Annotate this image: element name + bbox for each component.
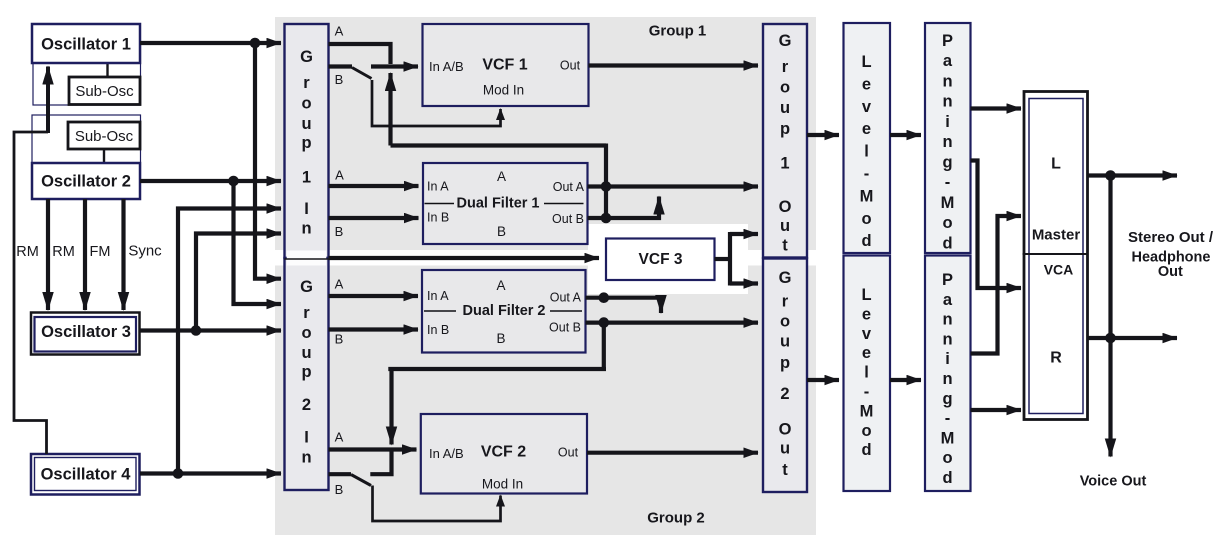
- svg-text:n: n: [942, 330, 952, 348]
- svg-text:In A: In A: [427, 180, 449, 194]
- wire VCF1 out to Group 1 Out: [589, 63, 759, 67]
- svg-text:o: o: [861, 422, 871, 440]
- svg-text:FM: FM: [90, 244, 111, 260]
- svg-text:n: n: [942, 73, 952, 91]
- wire In B to Dual Filter 1: [329, 216, 419, 220]
- svg-text:Dual Filter 1: Dual Filter 1: [457, 196, 540, 212]
- svg-text:L: L: [861, 286, 871, 304]
- block Group 2 In: [285, 258, 329, 490]
- svg-text:VCA: VCA: [1044, 262, 1074, 278]
- wire A from Group 1 In down to VCF1 input: [329, 44, 391, 64]
- svg-text:Oscillator 2: Oscillator 2: [41, 173, 131, 191]
- wire serial horizontal group 2: [388, 367, 606, 371]
- svg-text:Dual Filter 2: Dual Filter 2: [463, 303, 546, 319]
- wire VCF3 out split: [715, 257, 731, 261]
- wire Group 2 Out to Level-Mod 2: [807, 378, 839, 382]
- svg-text:r: r: [782, 293, 789, 311]
- svg-text:RM: RM: [52, 244, 75, 260]
- svg-text:VCF 1: VCF 1: [482, 57, 527, 74]
- wire osc1 riser to Group 2 In: [255, 43, 281, 279]
- group rect around Oscillator 1 + Sub-Osc: [33, 44, 141, 105]
- svg-text:n: n: [301, 449, 311, 467]
- group rect around Sub-Osc + Oscillator 2: [32, 115, 141, 178]
- svg-text:n: n: [942, 93, 952, 111]
- wire arrow into Oscillator 1 bottom: [46, 67, 50, 134]
- svg-text:Out A: Out A: [550, 291, 582, 305]
- svg-text:d: d: [861, 441, 871, 459]
- wire Panning-Mod 1 to Master L: [971, 106, 1022, 110]
- svg-text:e: e: [862, 75, 871, 93]
- wire FM osc2 to osc3: [83, 199, 87, 310]
- svg-text:Sync: Sync: [128, 243, 162, 260]
- svg-text:r: r: [303, 74, 310, 92]
- wire In A to Dual Filter 1: [329, 184, 419, 188]
- grey background Group areas: [275, 17, 816, 535]
- wire Panning-Mod 2 to VCA R: [971, 408, 1022, 412]
- svg-text:In A: In A: [427, 289, 449, 303]
- wire Oscillator 3 out: [140, 328, 281, 332]
- node L out: [1105, 170, 1116, 181]
- node on osc4 out: [173, 468, 184, 479]
- svg-text:2: 2: [302, 396, 311, 414]
- svg-text:P: P: [942, 271, 953, 289]
- svg-text:e: e: [862, 344, 871, 362]
- wire In A to Dual Filter 2: [329, 294, 419, 298]
- wire B stub 2: [329, 472, 352, 476]
- svg-text:n: n: [301, 220, 311, 238]
- svg-text:g: g: [942, 390, 952, 408]
- block VCF 2: [421, 414, 587, 494]
- svg-text:M: M: [941, 429, 955, 447]
- svg-text:r: r: [303, 304, 310, 322]
- svg-text:p: p: [301, 363, 311, 381]
- svg-text:l: l: [864, 143, 869, 161]
- svg-text:l: l: [864, 364, 869, 382]
- svg-text:O: O: [779, 421, 792, 439]
- block Group 2 Out: [763, 259, 807, 493]
- wire Group 1 Out to Level-Mod 1: [807, 133, 839, 137]
- svg-text:d: d: [942, 469, 952, 487]
- wire osc3 riser to Group 1 In: [196, 234, 281, 331]
- svg-text:2: 2: [780, 385, 789, 403]
- white gap band between group 1 and group 2 areas: [275, 250, 816, 266]
- wire L out: [1088, 173, 1177, 177]
- svg-text:e: e: [862, 305, 871, 323]
- block Level-Mod 1: [844, 23, 891, 253]
- node R out: [1105, 333, 1116, 344]
- wire mod path to VCF2 Mod In: [373, 486, 501, 522]
- wire osc2 riser to Group 2 In: [234, 181, 282, 304]
- svg-text:Oscillator 1: Oscillator 1: [41, 36, 131, 54]
- wire serial vertical group 1: [604, 144, 608, 219]
- svg-text:Voice Out: Voice Out: [1080, 474, 1147, 490]
- svg-text:o: o: [780, 313, 790, 331]
- wire Dual Filter 2 Out B to Group 2 Out: [586, 321, 759, 325]
- divider line between Group 1 In and Group 2 In: [285, 258, 329, 260]
- svg-text:R: R: [1050, 350, 1062, 367]
- block Group 1 Out: [763, 24, 807, 258]
- wire A into VCF2 In A/B: [329, 447, 417, 451]
- block Oscillator 4: [31, 454, 140, 495]
- svg-text:o: o: [942, 449, 952, 467]
- svg-text:-: -: [864, 165, 870, 183]
- wire VCF2 out to Group 2 Out: [587, 451, 758, 455]
- svg-text:o: o: [942, 214, 952, 232]
- svg-text:d: d: [861, 232, 871, 250]
- svg-text:p: p: [301, 134, 311, 152]
- svg-text:n: n: [942, 133, 952, 151]
- svg-text:v: v: [862, 98, 872, 116]
- svg-text:u: u: [780, 99, 790, 117]
- svg-text:-: -: [864, 383, 870, 401]
- svg-text:G: G: [779, 32, 792, 50]
- wire RM osc2 to osc3: [46, 199, 50, 310]
- svg-text:Out B: Out B: [552, 212, 584, 226]
- wire Sync osc2 to osc3: [121, 199, 125, 310]
- switch arm A/B for VCF1: [352, 68, 372, 79]
- wire serial horizontal group 1: [391, 143, 607, 147]
- wire Dual Filter 1 Out A to Group 1 Out: [588, 184, 759, 188]
- white zone around VCF 3: [588, 224, 748, 294]
- svg-text:u: u: [780, 333, 790, 351]
- svg-text:Out A: Out A: [553, 180, 585, 194]
- svg-text:o: o: [780, 79, 790, 97]
- block Oscillator 3: [31, 313, 140, 355]
- block Oscillator 1: [32, 24, 140, 63]
- node on osc2 out: [228, 176, 239, 187]
- divider Master VCA: [1023, 253, 1088, 255]
- svg-text:o: o: [301, 324, 311, 342]
- block Level-Mod 2: [844, 256, 891, 492]
- block Group 1 In: [285, 24, 329, 258]
- svg-text:Group 2: Group 2: [647, 510, 705, 527]
- svg-text:v: v: [862, 325, 872, 343]
- wire voice out down: [1108, 176, 1112, 457]
- svg-text:B: B: [497, 224, 506, 239]
- wire Panning-Mod 2 to Master L: [971, 216, 1022, 354]
- svg-text:Out: Out: [560, 59, 581, 73]
- svg-text:p: p: [780, 120, 790, 138]
- wire Dual Filter 1 Out B merge up: [588, 197, 660, 219]
- svg-text:A: A: [335, 430, 344, 445]
- block Dual Filter 1: [423, 163, 588, 244]
- svg-text:u: u: [301, 115, 311, 133]
- node Out A junction 2: [599, 292, 610, 303]
- wire serial vertical group 2: [602, 323, 606, 369]
- svg-text:B: B: [335, 224, 344, 239]
- wire switch common Z to In A/B junction: [370, 450, 391, 475]
- wire In B to Dual Filter 2: [329, 327, 419, 331]
- svg-text:RM: RM: [16, 244, 39, 260]
- svg-text:M: M: [941, 194, 955, 212]
- wire feed to VCF 3: [329, 256, 600, 260]
- svg-text:Out: Out: [558, 446, 579, 460]
- block Master VCA inner: [1029, 99, 1083, 414]
- svg-text:Out: Out: [1158, 264, 1183, 280]
- svg-text:VCF 2: VCF 2: [481, 444, 526, 461]
- switch arm A/B for VCF2: [351, 475, 371, 486]
- wire Sub-Osc2 to Oscillator 2: [103, 149, 105, 163]
- node on osc1 out: [250, 38, 261, 49]
- wire VCF3 to Group 1 Out: [730, 232, 758, 236]
- wire into VCF1 In A/B: [371, 64, 418, 68]
- svg-text:A: A: [497, 169, 506, 184]
- block Panning-Mod 1: [925, 23, 971, 253]
- svg-text:-: -: [945, 174, 951, 192]
- svg-text:d: d: [942, 235, 952, 253]
- svg-text:B: B: [335, 332, 344, 347]
- svg-text:t: t: [782, 237, 788, 255]
- block VCF 1: [423, 24, 589, 106]
- wire Level-Mod 2 to Panning-Mod 2: [890, 378, 921, 382]
- wire VCF3 to Group 2 Out: [730, 281, 758, 285]
- svg-text:Out B: Out B: [549, 321, 581, 335]
- svg-text:A: A: [335, 168, 344, 183]
- svg-text:u: u: [301, 344, 311, 362]
- wire Dual Filter 2 Out A merge down: [586, 298, 662, 313]
- wire Level-Mod 1 to Panning-Mod 1: [890, 133, 921, 137]
- svg-text:t: t: [782, 461, 788, 479]
- svg-text:Mod In: Mod In: [483, 83, 524, 98]
- svg-text:I: I: [304, 429, 309, 447]
- svg-text:In B: In B: [427, 211, 449, 225]
- node on osc3 out: [191, 325, 202, 336]
- svg-text:p: p: [780, 354, 790, 372]
- svg-text:G: G: [300, 48, 313, 66]
- svg-text:In B: In B: [427, 323, 449, 337]
- svg-text:L: L: [861, 53, 871, 71]
- wire mod path to VCF1 Mod In: [372, 80, 501, 126]
- svg-text:e: e: [862, 120, 871, 138]
- svg-text:Stereo Out /: Stereo Out /: [1128, 229, 1214, 246]
- svg-text:1: 1: [780, 155, 789, 173]
- svg-text:A: A: [335, 277, 344, 292]
- svg-text:M: M: [860, 187, 874, 205]
- wire Panning-Mod 1 to VCA R: [971, 161, 1022, 289]
- svg-text:A: A: [335, 24, 344, 39]
- wire Sub-Osc1 to Oscillator 1: [106, 63, 108, 77]
- svg-text:L: L: [1051, 156, 1061, 173]
- white band crossing Group In boxes: [287, 251, 327, 266]
- svg-text:Sub-Osc: Sub-Osc: [75, 128, 134, 145]
- svg-text:a: a: [943, 291, 953, 309]
- svg-text:B: B: [496, 331, 505, 346]
- svg-text:P: P: [942, 32, 953, 50]
- block Oscillator 2: [32, 163, 140, 199]
- svg-text:O: O: [779, 198, 792, 216]
- wire Oscillator 1 out: [140, 41, 281, 45]
- svg-text:u: u: [780, 440, 790, 458]
- svg-text:a: a: [943, 52, 953, 70]
- wire serial feedback up-arrow into VCF1 input: [388, 73, 392, 146]
- svg-text:n: n: [942, 311, 952, 329]
- svg-text:u: u: [780, 217, 790, 235]
- svg-text:Group 1: Group 1: [649, 23, 707, 40]
- svg-text:1: 1: [302, 169, 311, 187]
- svg-text:I: I: [304, 200, 309, 218]
- svg-text:Master: Master: [1032, 227, 1081, 244]
- wire Oscillator 2 out: [140, 179, 281, 183]
- svg-text:B: B: [335, 482, 344, 497]
- svg-text:Oscillator 3: Oscillator 3: [41, 323, 131, 341]
- wire Oscillator 4 feedback path: [14, 132, 48, 454]
- svg-text:VCF 3: VCF 3: [639, 251, 683, 268]
- block Sub-Osc 2: [68, 122, 140, 149]
- wire R out: [1088, 336, 1177, 340]
- wire serial down-arrow into VCF2 input: [389, 369, 393, 445]
- block Panning-Mod 2: [925, 256, 971, 492]
- wire osc4 riser to Group 1 In: [178, 209, 281, 474]
- svg-text:o: o: [861, 210, 871, 228]
- svg-text:G: G: [779, 269, 792, 287]
- svg-text:r: r: [782, 58, 789, 76]
- svg-text:M: M: [860, 402, 874, 420]
- block Dual Filter 2: [422, 270, 586, 353]
- svg-text:n: n: [942, 370, 952, 388]
- node Out B junction 2: [599, 317, 610, 328]
- block Sub-Osc 1: [69, 77, 140, 105]
- svg-text:A: A: [496, 278, 505, 293]
- svg-text:G: G: [300, 278, 313, 296]
- block Master VCA outer: [1024, 92, 1088, 420]
- wire Oscillator 4 out: [140, 471, 281, 475]
- svg-text:Sub-Osc: Sub-Osc: [75, 83, 134, 100]
- svg-text:Oscillator 4: Oscillator 4: [41, 466, 132, 484]
- svg-text:o: o: [301, 95, 311, 113]
- svg-text:In A/B: In A/B: [429, 59, 464, 74]
- wire B stub: [329, 64, 353, 68]
- svg-text:-: -: [945, 410, 951, 428]
- svg-text:Mod In: Mod In: [482, 477, 523, 492]
- svg-text:In A/B: In A/B: [429, 446, 464, 461]
- svg-text:g: g: [942, 154, 952, 172]
- svg-text:B: B: [335, 72, 344, 87]
- block VCF 3: [606, 239, 715, 281]
- node Out A junction: [601, 181, 612, 192]
- node Out B junction: [601, 213, 612, 224]
- svg-text:i: i: [945, 350, 950, 368]
- svg-text:i: i: [945, 113, 950, 131]
